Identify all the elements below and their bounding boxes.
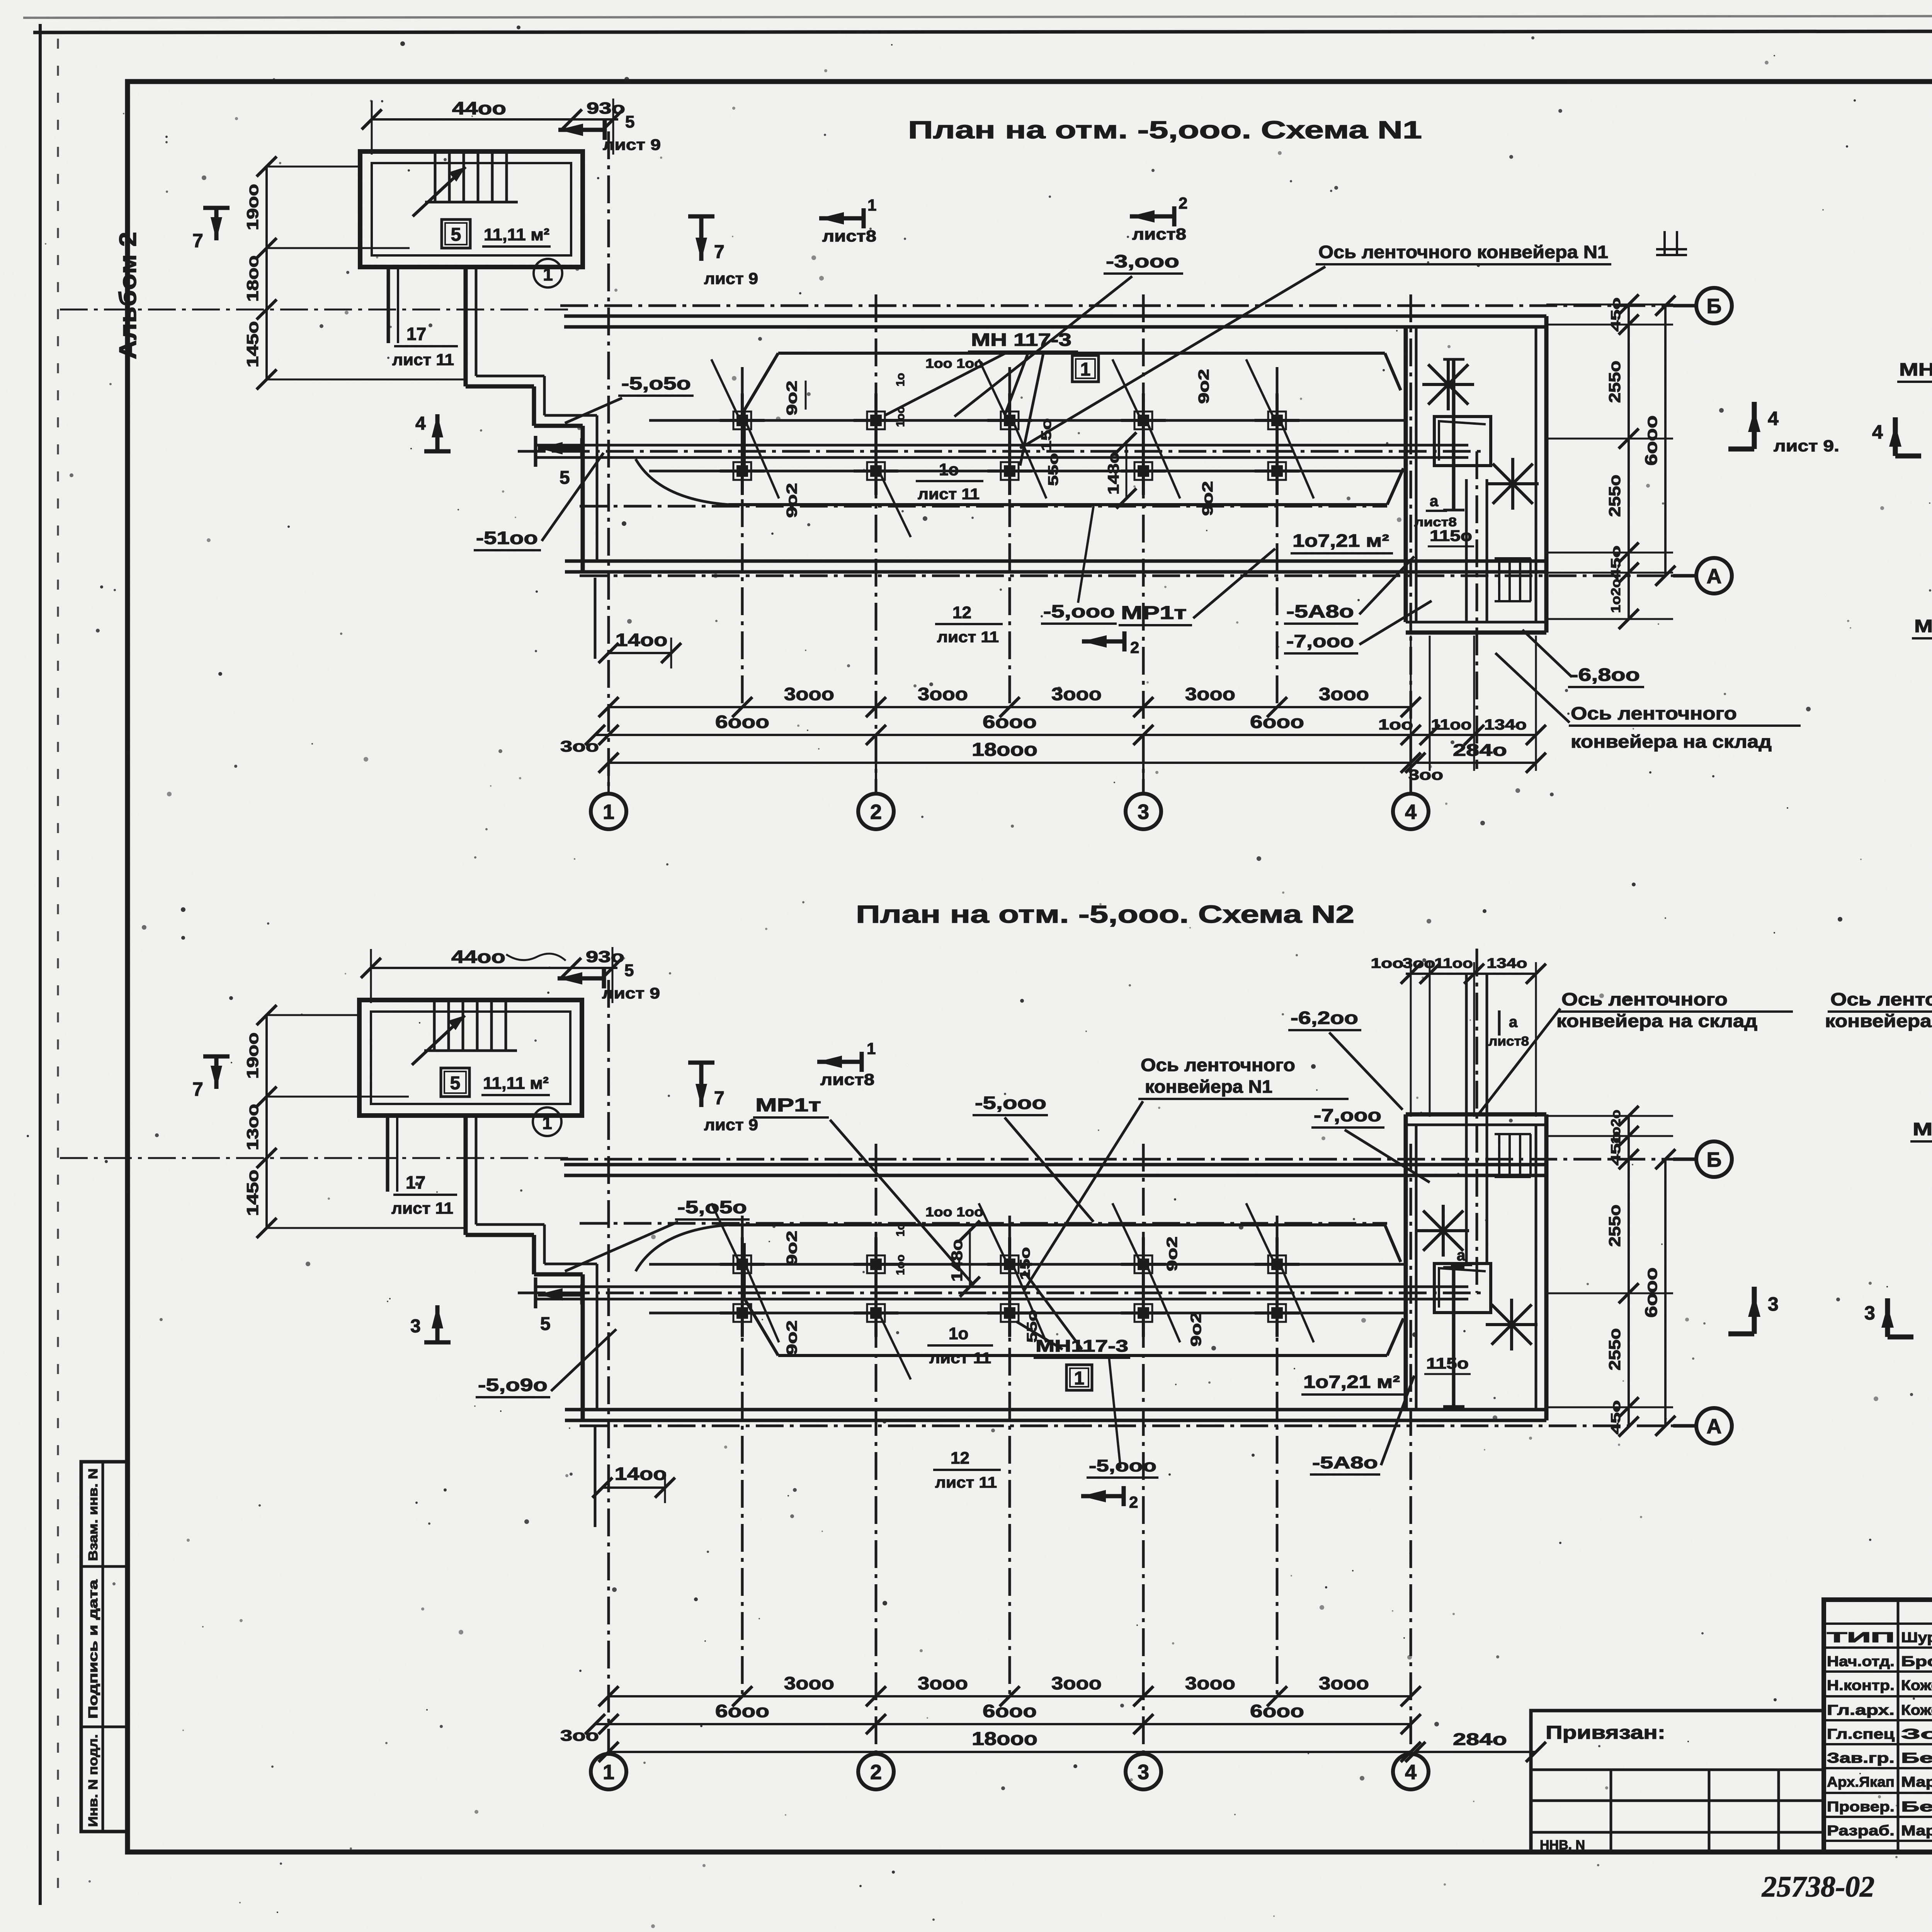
plan2 rail anchors lower row	[720, 1311, 765, 1315]
svg-text:18ооо: 18ооо	[972, 1729, 1037, 1749]
plan1 section marker 7 list9	[699, 216, 704, 261]
svg-text:лист8: лист8	[1488, 1034, 1529, 1049]
plan1 section marker 2 list8	[1130, 214, 1174, 219]
svg-text:9о2: 9о2	[784, 1231, 800, 1265]
plan1 grid circle 3	[1142, 763, 1145, 794]
svg-text:МН117-3: МН117-3	[1036, 1337, 1128, 1355]
plan2 bay right dim chain	[1628, 1116, 1630, 1427]
left perforation dotted line	[57, 39, 59, 1895]
svg-text:Н.контр.: Н.контр.	[1827, 1677, 1895, 1693]
svg-text:11,11 м²: 11,11 м²	[483, 1074, 549, 1093]
svg-text:лист 9: лист 9	[704, 269, 758, 287]
svg-text:Разраб.: Разраб.	[1827, 1823, 1895, 1838]
plan2 bay hatch bottom	[1492, 1304, 1532, 1345]
plan1 section marker 5	[538, 446, 582, 451]
plan2 squiggle	[506, 954, 566, 961]
plan2 bay dim extensions	[1546, 1115, 1673, 1117]
plan1 node 1 square	[1072, 355, 1099, 382]
svg-text:11оо: 11оо	[1434, 955, 1473, 971]
plan2 bay machine square	[1434, 1264, 1491, 1313]
svg-text:45о: 45о	[1609, 298, 1623, 332]
svg-text:Взам. инв. N: Взам. инв. N	[86, 1468, 100, 1561]
svg-text:1о7,21 м²: 1о7,21 м²	[1293, 531, 1389, 551]
svg-text:15о: 15о	[1038, 418, 1054, 451]
plan2 south wall outer	[565, 1419, 1546, 1422]
svg-text:-5,о9о: -5,о9о	[478, 1375, 548, 1395]
privyazan col b	[1708, 1770, 1711, 1852]
plan2 vertical dim 6000 right	[1664, 1159, 1667, 1426]
plan2 section marker 2 bottom	[1081, 1494, 1124, 1498]
staff table row lines	[1824, 1622, 1932, 1625]
svg-text:9о2: 9о2	[1200, 481, 1216, 516]
svg-text:-51оо: -51оо	[476, 528, 538, 548]
plan2 corridor wall a	[464, 1116, 468, 1235]
svg-text:МН139-6: МН139-6	[1899, 359, 1932, 379]
plan1 axis A circle	[1673, 574, 1697, 578]
svg-text:-5,ооо: -5,ооо	[975, 1093, 1046, 1113]
svg-text:6ооо: 6ооо	[1642, 415, 1661, 466]
svg-text:Ось ленточного: Ось ленточного	[1141, 1055, 1295, 1075]
svg-text:3: 3	[1768, 1293, 1779, 1315]
plan2 pit top left curve	[636, 1225, 728, 1271]
svg-text:1оо: 1оо	[894, 1255, 907, 1275]
plan1 bay south wall	[1406, 621, 1546, 624]
plan2 axis B circle	[1673, 1158, 1697, 1161]
plan2 axis A circle	[1673, 1424, 1697, 1428]
plan2 intermediate axes	[741, 1216, 744, 1697]
plan1 anchor leader diagonals	[747, 424, 779, 498]
plan1 stair room number 5 square	[442, 219, 470, 248]
svg-text:45о: 45о	[1609, 1400, 1623, 1434]
svg-text:а: а	[1457, 1247, 1466, 1264]
svg-text:лист 11: лист 11	[935, 1474, 997, 1491]
plan2 south wall inner	[565, 1408, 1546, 1412]
svg-text:Ось ленточного: Ось ленточного	[1830, 989, 1932, 1009]
svg-text:284о: 284о	[1453, 741, 1507, 760]
plan1 bay dim row b	[1415, 762, 1536, 764]
plan2 conveyor end bar	[534, 1277, 537, 1308]
plan4 bare marker 3	[1885, 1298, 1890, 1337]
side stamp column box	[81, 1462, 128, 1832]
plan2 bay top dims	[1406, 973, 1536, 975]
svg-text:14оо: 14оо	[615, 1464, 667, 1484]
svg-text:1о: 1о	[894, 373, 907, 386]
svg-text:44оо: 44оо	[451, 947, 505, 967]
svg-text:44оо: 44оо	[452, 98, 506, 118]
svg-text:284о: 284о	[1453, 1730, 1507, 1749]
svg-text:5: 5	[625, 112, 634, 131]
svg-text:лист 9: лист 9	[602, 985, 660, 1002]
svg-text:-5,о5о: -5,о5о	[677, 1197, 747, 1217]
svg-text:11оо: 11оо	[1431, 717, 1472, 733]
plan1 axis B dashdot	[560, 304, 1694, 307]
svg-text:Кожевников: Кожевников	[1901, 1702, 1932, 1718]
svg-text:3: 3	[1864, 1302, 1875, 1324]
plan2 bay vertical mast	[1452, 1267, 1456, 1406]
svg-text:1: 1	[867, 1039, 876, 1058]
svg-text:18ооо: 18ооо	[972, 740, 1037, 760]
plan1 south wall inner	[565, 560, 1546, 563]
svg-text:93о: 93о	[586, 947, 624, 966]
svg-text:а: а	[1430, 493, 1439, 510]
svg-text:1о2о: 1о2о	[1609, 579, 1623, 613]
svg-text:3ооо: 3ооо	[1185, 684, 1235, 704]
plan1 grid line 4	[1410, 294, 1412, 792]
plan1 section marker 1 list8	[819, 216, 864, 221]
plan2 pit right slants	[1385, 1225, 1401, 1262]
plan1 pit top edge	[778, 352, 1385, 355]
plan1 dim row 18000 line	[609, 762, 1411, 764]
svg-text:1оо: 1оо	[1371, 955, 1404, 971]
svg-text:лист 11: лист 11	[929, 1350, 991, 1367]
staff table column 1	[1897, 1600, 1900, 1852]
plan4 section marker 3 list9 left	[1752, 1287, 1757, 1334]
privyazan row 1	[1531, 1769, 1824, 1771]
plan1 node circle 1	[534, 259, 562, 287]
plan1 dim row 6000 line	[595, 734, 1411, 736]
svg-text:конвейера N1: конвейера N1	[1145, 1077, 1272, 1097]
plan2 north wall inner	[564, 1174, 1546, 1177]
plan1 conveyor line upper	[536, 444, 1468, 447]
svg-text:-5,ооо: -5,ооо	[1043, 601, 1115, 621]
svg-text:15о: 15о	[1017, 1247, 1033, 1280]
privyazan row 2	[1531, 1799, 1824, 1802]
svg-text:лист 9.: лист 9.	[1774, 437, 1839, 455]
plan1 conveyor end bar	[534, 436, 537, 467]
plan1 pit bottom left curve	[636, 459, 728, 505]
plan2 south wall extension lines	[594, 1426, 597, 1527]
plan2 stair room inner wall	[371, 1012, 570, 1104]
svg-text:а: а	[1509, 1014, 1518, 1031]
svg-text:лист 11: лист 11	[937, 629, 999, 646]
svg-text:конвейера на склад: конвейера на склад	[1556, 1011, 1757, 1031]
plan1 north wall outer	[564, 315, 1546, 318]
plan1 bay bottom extensions	[1410, 636, 1412, 771]
plan2 grid circle 4	[1393, 1754, 1429, 1789]
plan1 grid line 3	[1142, 294, 1145, 792]
privyazan row 3	[1531, 1831, 1824, 1834]
svg-text:2: 2	[1129, 1493, 1138, 1511]
plan2 pit top edge	[778, 1223, 1385, 1226]
plan1 bay corner bracket	[1656, 231, 1687, 255]
svg-text:1оо: 1оо	[1378, 717, 1413, 733]
svg-text:5: 5	[540, 1314, 551, 1334]
svg-text:ННВ. N: ННВ. N	[1540, 1838, 1585, 1852]
svg-text:145о: 145о	[243, 321, 262, 367]
plan1 grid circle 2	[875, 763, 877, 794]
plan2 rail lower	[649, 1312, 1406, 1315]
plan2 dim row 18000 line	[609, 1751, 1411, 1753]
plan1 pit bottom edge	[728, 503, 1387, 506]
svg-text:3ооо: 3ооо	[784, 1673, 834, 1693]
svg-text:МН 117-3: МН 117-3	[1914, 616, 1932, 636]
plan2 rail upper	[649, 1263, 1406, 1266]
plan1 section 7 marker far left	[214, 208, 219, 240]
plan1 rail upper	[649, 419, 1406, 422]
side stamp divider 1	[81, 1565, 128, 1568]
plan2 grid circle 3	[1126, 1754, 1161, 1789]
plan2 anchor leader diagonals	[747, 1268, 779, 1342]
svg-text:18оо: 18оо	[243, 255, 262, 302]
plan1 pit lower dashdot	[580, 505, 1387, 508]
svg-text:9о2: 9о2	[1188, 1312, 1204, 1347]
svg-text:93о: 93о	[587, 99, 625, 117]
plan1 axis A dashdot	[580, 575, 1694, 577]
privyazan col a	[1610, 1770, 1612, 1852]
svg-text:1: 1	[603, 1760, 614, 1784]
plan2 room dim 4400	[371, 967, 617, 969]
svg-text:Ось ленточного: Ось ленточного	[1571, 703, 1737, 723]
svg-text:55о: 55о	[1024, 1310, 1040, 1343]
svg-text:1: 1	[1080, 359, 1091, 380]
svg-text:17: 17	[406, 1172, 425, 1192]
plan2 left dim chain	[265, 1015, 268, 1228]
svg-text:3ооо: 3ооо	[918, 684, 968, 704]
side stamp divider 2	[81, 1726, 128, 1728]
svg-text:5: 5	[560, 468, 570, 488]
svg-text:Берлин: Берлин	[1901, 1799, 1932, 1815]
svg-text:лист8: лист8	[1414, 515, 1457, 529]
privyazan col c	[1777, 1770, 1780, 1852]
svg-text:1: 1	[543, 264, 553, 284]
svg-text:6ооо: 6ооо	[983, 712, 1037, 732]
plan1 stair flight	[434, 154, 437, 202]
svg-text:25738-02: 25738-02	[1762, 1871, 1874, 1903]
svg-text:1о7,21 м²: 1о7,21 м²	[1303, 1372, 1400, 1392]
svg-text:-6,8оо: -6,8оо	[1570, 665, 1640, 685]
svg-text:План на отм. -5,ооо. Схема N: План на отм. -5,ооо. Схема N1	[908, 116, 1422, 144]
plan1 corridor inner wall	[387, 267, 390, 343]
svg-text:6ооо: 6ооо	[983, 1701, 1037, 1721]
svg-text:Бродский: Бродский	[1901, 1653, 1932, 1669]
svg-text:9о2: 9о2	[784, 1320, 800, 1355]
svg-text:Б: Б	[1707, 1148, 1722, 1171]
svg-text:3оо: 3оо	[1408, 767, 1443, 783]
plan2 corridor step c	[532, 1235, 536, 1274]
plan1 bay vertical mast	[1452, 359, 1456, 510]
svg-text:-6,2оо: -6,2оо	[1291, 1008, 1358, 1028]
svg-text:5: 5	[450, 1073, 461, 1094]
svg-text:Марголина: Марголина	[1901, 1823, 1932, 1838]
plan2 corridor step d	[534, 1272, 583, 1277]
plan1 north wall inner	[564, 325, 1546, 329]
svg-text:МР1т: МР1т	[755, 1095, 821, 1116]
svg-text:Арх.Якап: Арх.Якап	[1827, 1774, 1895, 1790]
svg-text:лист8: лист8	[1132, 225, 1186, 243]
svg-text:1: 1	[603, 800, 614, 823]
svg-text:45о: 45о	[1609, 546, 1623, 580]
svg-text:3: 3	[1138, 800, 1149, 823]
svg-text:Привязан:: Привязан:	[1546, 1723, 1665, 1743]
svg-text:2: 2	[1130, 638, 1139, 656]
plan1 rail lower	[649, 470, 1406, 473]
plan1 bay hatch bottom	[1493, 464, 1533, 504]
plan1 conveyor axis dashdot	[518, 450, 1487, 453]
plan1 grid line 2	[875, 294, 878, 792]
plan1 corridor step b	[466, 384, 534, 389]
plan1 bay west wall	[1404, 327, 1408, 622]
svg-text:-7,ооо: -7,ооо	[1314, 1105, 1381, 1125]
plan2 grid line 1	[607, 980, 610, 1754]
svg-text:2: 2	[870, 1760, 882, 1784]
plan2 grid line 2	[875, 1144, 878, 1754]
svg-text:3оо: 3оо	[560, 738, 599, 755]
plan2 conveyor axis dashdot	[518, 1292, 1487, 1294]
svg-text:План на отм. -5,ооо. Схема N: План на отм. -5,ооо. Схема N2	[856, 900, 1354, 928]
plan1 bay dim row a	[1411, 734, 1536, 736]
plan2 axis B dashdot	[560, 1158, 1694, 1161]
svg-text:-5А8о: -5А8о	[1286, 601, 1354, 621]
plan1 dim 1400	[609, 652, 671, 654]
svg-text:МР1т: МР1т	[1121, 603, 1187, 623]
plan2 west wall	[581, 1274, 585, 1420]
plan2 bay hatch top	[1423, 1211, 1463, 1251]
svg-text:Берлин: Берлин	[1901, 1750, 1932, 1766]
svg-text:12: 12	[952, 603, 971, 622]
plan1 rail anchors lower row	[720, 469, 765, 473]
svg-text:3ооо: 3ооо	[1051, 1673, 1102, 1693]
svg-text:Кожевников: Кожевников	[1901, 1677, 1932, 1693]
svg-text:13оо: 13оо	[243, 1104, 262, 1150]
svg-text:конвейера на склад: конвейера на склад	[1571, 731, 1772, 752]
plan3 bare marker 4	[1893, 417, 1898, 456]
svg-text:11,11 м²: 11,11 м²	[484, 225, 549, 244]
svg-text:Подпись и дата: Подпись и дата	[86, 1579, 100, 1719]
plan2 section marker 4	[435, 1305, 440, 1342]
svg-text:145о: 145о	[243, 1170, 262, 1216]
plan2 bay ladder	[1498, 1134, 1500, 1177]
plan1 west wall	[581, 426, 585, 572]
plan1 left dim chain	[265, 167, 268, 379]
plan2 section marker 7 list9	[699, 1063, 704, 1107]
svg-text:лист 11: лист 11	[392, 350, 454, 369]
svg-text:17: 17	[406, 324, 426, 344]
plan1 axis B circle	[1673, 304, 1697, 308]
plan1 bay right dim chain	[1628, 304, 1630, 619]
plan2 axis A dashdot	[580, 1425, 1694, 1427]
svg-text:4: 4	[1405, 800, 1417, 823]
svg-text:7: 7	[714, 242, 724, 262]
svg-text:6ооо: 6ооо	[1250, 712, 1304, 732]
plan2 section marker 5 list9 top	[558, 976, 604, 981]
svg-text:-3,ооо: -3,ооо	[1106, 251, 1179, 271]
plan2 grid line 3	[1142, 1144, 1145, 1754]
svg-text:3ооо: 3ооо	[918, 1673, 968, 1693]
plan2 section marker 1 list8	[817, 1060, 862, 1064]
svg-text:-5,ооо: -5,ооо	[1089, 1456, 1156, 1475]
svg-text:9о2: 9о2	[1164, 1236, 1180, 1271]
svg-text:Альбом 2: Альбом 2	[115, 232, 141, 359]
svg-text:-7,ооо: -7,ооо	[1286, 631, 1354, 651]
svg-text:7: 7	[192, 1078, 203, 1100]
plan2 grid line 4	[1410, 1144, 1412, 1754]
svg-text:лист 11: лист 11	[918, 486, 980, 503]
svg-text:лист 9: лист 9	[704, 1116, 758, 1134]
plan2 section marker 5	[538, 1293, 582, 1297]
svg-text:Ось ленточного конвейера N1: Ось ленточного конвейера N1	[1318, 242, 1608, 262]
plan3 section marker 4 list9 left	[1752, 402, 1757, 449]
privyazan block	[1531, 1711, 1824, 1852]
plan2 stair room number 5 square	[441, 1068, 469, 1097]
plan1 grid circle 1	[607, 763, 610, 794]
svg-text:Ось ленточного: Ось ленточного	[1561, 989, 1728, 1009]
plan2 pit bottom left slant	[744, 1298, 778, 1355]
svg-text:2: 2	[870, 800, 882, 823]
plan2 conveyor line lower	[536, 1298, 1468, 1301]
plan1 room dim 4400	[372, 118, 618, 121]
svg-text:4: 4	[1872, 421, 1883, 443]
svg-text:9о2: 9о2	[1196, 369, 1212, 404]
plan2 bay west wall	[1404, 1114, 1408, 1410]
plan2 section 7 marker far left	[214, 1056, 219, 1089]
svg-text:7: 7	[714, 1088, 724, 1109]
svg-text:255о: 255о	[1605, 1328, 1624, 1370]
plan1 intermediate axes	[741, 367, 744, 708]
svg-text:3ооо: 3ооо	[1185, 1673, 1235, 1693]
svg-text:3оо: 3оо	[560, 1727, 599, 1744]
plan1 bay ladder	[1498, 558, 1500, 601]
plan1 corridor step c	[532, 386, 536, 426]
plan1 south wall extension lines	[594, 578, 597, 659]
svg-text:115о: 115о	[1426, 1355, 1469, 1372]
svg-text:4: 4	[415, 413, 426, 434]
plan2 pit bottom edge	[778, 1354, 1387, 1357]
plan2 node circle 1	[533, 1107, 561, 1136]
svg-text:3ооо: 3ооо	[1319, 1673, 1369, 1693]
svg-text:лист8: лист8	[822, 227, 876, 245]
plan2 corridor step b	[466, 1233, 534, 1237]
svg-text:134о: 134о	[1487, 955, 1527, 971]
plan2 pit upper dashdot	[580, 1222, 1387, 1225]
svg-text:Инв. N подл.: Инв. N подл.	[86, 1734, 100, 1827]
plan2 dim row 3000 line	[609, 1695, 1411, 1697]
svg-text:255о: 255о	[1605, 361, 1624, 403]
plan2 bay east wall	[1544, 1114, 1549, 1420]
plan1 pit left slant	[744, 353, 778, 410]
plan2 corridor inner wall	[386, 1116, 389, 1192]
plan1 bay machine square	[1434, 417, 1491, 466]
svg-text:ТИП: ТИП	[1827, 1629, 1895, 1645]
svg-text:19оо: 19оо	[243, 1032, 262, 1079]
svg-text:1о: 1о	[939, 460, 959, 479]
svg-text:9о2: 9о2	[784, 483, 800, 518]
svg-text:3ооо: 3ооо	[784, 684, 834, 704]
svg-text:Гл.спец: Гл.спец	[1827, 1726, 1895, 1742]
svg-text:134о: 134о	[1484, 717, 1527, 733]
plan1 grid line 1	[607, 131, 610, 792]
plan1 corridor step d	[534, 424, 583, 428]
svg-text:4: 4	[1768, 408, 1779, 429]
page top edge scan line	[23, 15, 1932, 18]
svg-text:МН117-3: МН117-3	[1913, 1119, 1932, 1139]
svg-text:Зав.гр.: Зав.гр.	[1827, 1750, 1895, 1766]
plan1 grid circle 4	[1410, 763, 1412, 794]
svg-text:А: А	[1707, 565, 1722, 588]
plan2 bay conveyor up	[1465, 974, 1468, 1264]
svg-text:1: 1	[867, 196, 876, 214]
svg-text:5: 5	[451, 224, 461, 245]
svg-text:МН 117-3: МН 117-3	[971, 330, 1071, 350]
title block outer	[1824, 1600, 1932, 1852]
plan1 section marker 5 list9 top	[558, 128, 605, 132]
svg-text:1оо: 1оо	[894, 406, 907, 427]
svg-text:Провер.: Провер.	[1827, 1799, 1895, 1815]
svg-text:-5,о5о: -5,о5о	[621, 373, 691, 393]
plan2 conveyor line upper	[536, 1286, 1468, 1288]
plan1 section marker 2 bottom	[1082, 639, 1124, 644]
svg-text:Нач.отд.: Нач.отд.	[1827, 1653, 1895, 1669]
svg-text:Гл.арх.: Гл.арх.	[1827, 1702, 1895, 1718]
